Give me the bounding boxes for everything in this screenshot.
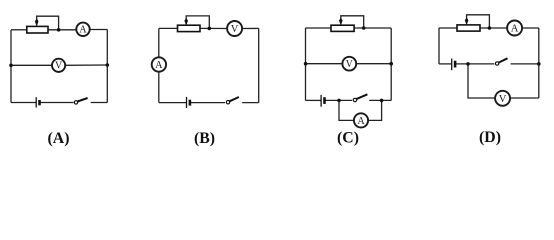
- svg-text:A: A: [155, 60, 163, 71]
- svg-text:(B): (B): [194, 130, 215, 147]
- svg-text:(C): (C): [337, 130, 359, 147]
- svg-text:A: A: [511, 24, 519, 35]
- svg-text:V: V: [231, 24, 239, 35]
- svg-text:(D): (D): [479, 129, 501, 146]
- svg-text:A: A: [357, 116, 365, 127]
- svg-text:A: A: [79, 25, 87, 36]
- svg-text:(A): (A): [48, 130, 70, 147]
- svg-text:V: V: [55, 61, 63, 72]
- svg-text:V: V: [346, 59, 354, 70]
- svg-text:V: V: [499, 94, 507, 105]
